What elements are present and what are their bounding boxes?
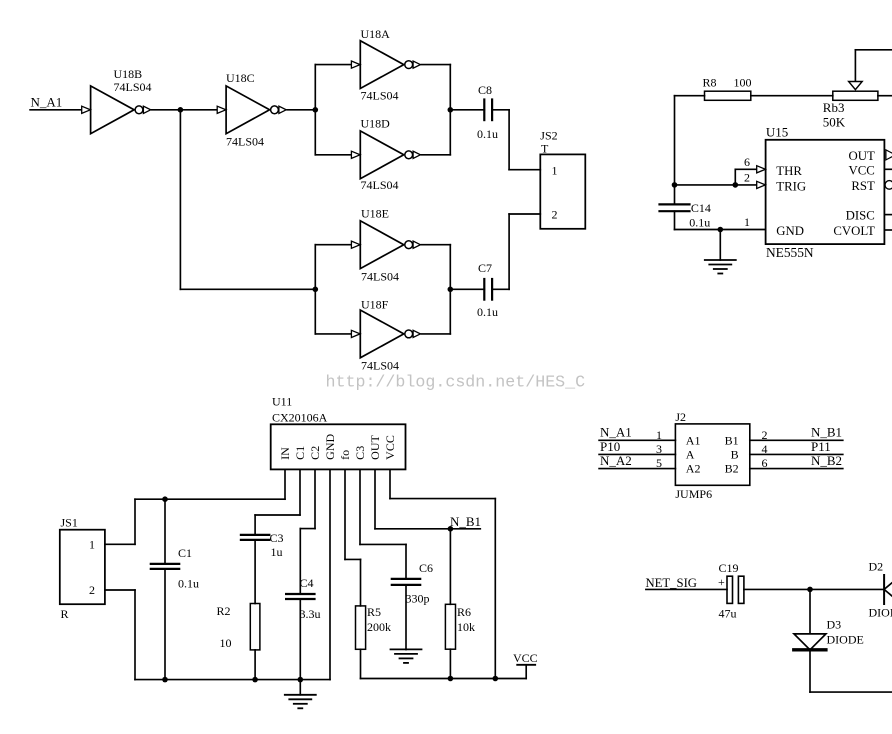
svg-text:D3: D3 [827,618,842,632]
capacitor C3 [241,535,269,540]
svg-text:74LS04: 74LS04 [361,270,399,284]
pin stub VCC route [390,469,495,678]
wire J2 pin3 [599,453,675,455]
pin label A [686,448,695,462]
svg-text:NE555N: NE555N [766,245,814,260]
svg-text:74LS04: 74LS04 [361,178,399,192]
svg-text:RST: RST [851,179,875,193]
pin arrow TRIG [757,181,766,188]
pin number 6 [744,155,750,169]
pin stub OUT route [375,469,480,528]
node C8 junction [448,107,454,113]
pin stub GND [329,469,331,679]
svg-text:10: 10 [220,636,232,650]
svg-text:http://blog.csdn.net/HES_C: http://blog.csdn.net/HES_C [326,373,586,392]
pin label VCC [848,163,874,177]
svg-text:10k: 10k [457,620,475,634]
pin label THR [776,164,802,178]
diode D3 [794,634,826,650]
pin number 1 J2 [656,428,662,442]
label JS1 [61,516,78,530]
net label N_A1 J2 [600,425,632,440]
capacitor C4 [286,594,314,599]
capacitor C7 [484,279,492,300]
node GND rail junction [718,227,724,233]
net label N_A2 [600,453,632,468]
wire bottom rail right [361,678,527,680]
svg-text:B2: B2 [725,462,739,476]
resistor R8 [675,91,833,100]
label C19 [719,561,739,621]
svg-text:Rb3: Rb3 [823,100,845,115]
label JS2 [540,129,557,156]
svg-text:74LS04: 74LS04 [114,80,152,94]
svg-text:GND: GND [323,433,337,459]
wire C6 bottom + ground [405,585,407,650]
pin bubble RST [885,181,892,190]
svg-text:A1: A1 [686,433,701,447]
label R8 [703,76,752,90]
svg-text:0.1u: 0.1u [178,577,199,591]
wire J2 pin4 [750,453,843,455]
node A/D branch junction [313,107,319,113]
wire NET_SIG [646,588,727,590]
svg-text:DISC: DISC [846,208,875,222]
capacitor C6 [392,579,420,585]
pin stub C2 route [300,469,315,594]
svg-text:N_B2: N_B2 [811,453,842,468]
wire TRIG [675,184,757,186]
connector J2 box [675,424,749,485]
node TRIG junction [672,182,678,188]
svg-text:C6: C6 [419,561,433,575]
wiper Rb3 [849,50,892,90]
pin label A2 [686,462,701,476]
wire JS1 pin2 [105,590,135,680]
ground NE555 [705,230,736,274]
wire U18A output [421,64,450,66]
wire C4 bottom [299,600,301,680]
svg-text:N_A1: N_A1 [31,94,63,109]
svg-text:IN: IN [278,447,292,460]
pin stub C1 route [255,469,300,535]
svg-text:THR: THR [776,164,802,178]
wire branch vertical A-D [314,65,316,155]
svg-text:JS1: JS1 [61,516,78,530]
svg-text:CX20106A: CX20106A [272,410,328,424]
svg-text:5: 5 [656,456,662,470]
label C19 plus [718,575,725,589]
svg-text:DIODE: DIODE [869,606,892,620]
label C7 [477,261,498,319]
label J2 [675,410,686,424]
pin CVOLT right [884,229,892,231]
svg-text:6: 6 [762,456,768,470]
label U18D [361,117,399,193]
node C4 bottom [298,677,304,683]
pin 2 JS1 [89,583,95,597]
pin 2 JS2 [552,208,558,222]
wire C8 to JS2 pin1 [492,110,540,170]
label U18F [361,298,399,373]
pin label B [731,448,739,462]
label JUMP6 [675,487,712,501]
diode D2 [884,575,892,604]
capacitor C1 [151,499,179,679]
wire D3 stem bottom [810,650,892,692]
pin arrow OUT [886,150,892,160]
svg-text:N_B1: N_B1 [450,514,481,529]
wire C14 to GND rail [675,211,766,229]
node D3 junction [807,587,813,593]
svg-text:C14: C14 [691,201,711,215]
label U18E [361,207,399,284]
net label N_A1 [31,94,63,109]
pin number 2 [744,171,750,185]
svg-text:R: R [61,607,69,621]
capacitor C19 [727,576,744,603]
svg-text:N_A1: N_A1 [600,425,632,440]
op-amp U15 box [766,140,885,244]
inverter U18D [351,131,420,179]
IC U11 box [271,424,406,469]
wire JS1 pin1 [105,499,135,544]
svg-text:U15: U15 [766,124,788,139]
svg-text:C8: C8 [478,83,492,97]
net label N_B1 [450,514,481,529]
wire THR stub [735,169,756,185]
label U11 [272,395,328,425]
wire to C8 [450,109,484,111]
wire U18B branch vertical [179,110,181,289]
wire IN rail [135,498,285,500]
svg-text:VCC: VCC [383,435,397,460]
svg-text:1: 1 [656,428,662,442]
node C1 top junction [162,496,168,502]
label NE555N [766,245,814,260]
wire U18F output [421,333,450,335]
wire U18B output [152,109,217,111]
svg-text:1: 1 [89,538,95,552]
wire J2 pin1 [599,439,675,441]
svg-text:A: A [686,448,695,462]
svg-text:N_A2: N_A2 [600,453,632,468]
label R6 [457,605,475,634]
svg-text:R2: R2 [217,604,231,618]
svg-text:C1: C1 [178,546,192,560]
wire R8 left vertical [674,96,676,205]
svg-text:VCC: VCC [848,163,874,177]
pin number 4 J2 [762,442,768,456]
connector JS1 [60,530,105,605]
svg-text:C1: C1 [293,446,307,460]
svg-text:2: 2 [762,428,768,442]
svg-text:U18A: U18A [361,27,391,41]
label C3 [270,531,284,559]
svg-text:1u: 1u [271,545,283,559]
pin 1 JS2 [552,163,558,177]
pin number 3 J2 [656,442,662,456]
svg-text:2: 2 [552,208,558,222]
wire branch vertical E-F [314,245,316,334]
svg-text:OUT: OUT [848,149,874,163]
wire U18C output [287,109,315,111]
node THR stub junction [733,182,739,188]
svg-text:T: T [541,141,549,155]
svg-text:0.1u: 0.1u [477,127,498,141]
wire to U18F input [315,333,350,335]
node R2 bottom [252,677,258,683]
pin number 1 [744,215,750,229]
svg-text:U18F: U18F [361,298,389,312]
svg-text:47u: 47u [719,607,737,621]
node C1 bottom [162,677,168,683]
label R2 [217,604,232,650]
svg-text:3.3u: 3.3u [300,607,321,621]
label U18A [361,27,399,103]
pin labels U11 [278,433,397,459]
pin stub C3 route [360,469,406,579]
svg-text:A2: A2 [686,462,701,476]
pin stub fo route [345,469,361,606]
svg-text:200k: 200k [367,620,391,634]
svg-text:74LS04: 74LS04 [226,135,264,149]
label U15 [766,124,788,139]
svg-text:1: 1 [552,163,558,177]
svg-text:2: 2 [744,171,750,185]
svg-text:NET_SIG: NET_SIG [646,576,697,590]
svg-text:TRIG: TRIG [776,179,806,193]
wire N_B1 to R6 [449,529,451,605]
label C1 [178,546,199,591]
resistor R6 [445,604,455,678]
svg-text:C2: C2 [308,446,322,460]
label C8 [477,83,498,141]
svg-text:J2: J2 [675,410,686,424]
pin number 2 J2 [762,428,768,442]
wire C19 to D2 [744,588,884,590]
pin label GND [776,224,804,238]
net label P10 [600,439,620,454]
svg-text:50K: 50K [823,115,846,130]
pin 1 JS1 [89,538,95,552]
wire A/D output vertical [449,65,451,155]
pin label A1 [686,433,701,447]
inverter U18B [82,86,151,134]
svg-text:B: B [731,448,739,462]
label C4 [300,576,321,621]
svg-text:R5: R5 [367,605,381,619]
svg-text:P10: P10 [600,439,620,454]
wire J2 pin6 [750,468,843,470]
svg-text:4: 4 [762,442,768,456]
pin label OUT [848,149,874,163]
net label P11 [811,439,831,454]
svg-text:R6: R6 [457,605,471,619]
label D2 [869,560,892,620]
svg-text:6: 6 [744,155,750,169]
label Rb3 [823,100,846,129]
svg-text:74LS04: 74LS04 [361,89,399,103]
power VCC [517,665,535,679]
wire branch horizontal EF [180,288,315,290]
label VCC [513,651,538,665]
node U18B out junction [178,107,184,113]
svg-text:U11: U11 [272,395,292,409]
svg-text:U18C: U18C [226,71,255,85]
inverter U18F [351,310,420,358]
wire bottom rail left [135,679,330,681]
svg-text:U18E: U18E [361,207,389,221]
wire U18E output [421,244,450,246]
svg-text:330p: 330p [406,592,430,606]
inverter U18A [351,41,420,89]
svg-text:+: + [718,575,725,589]
svg-text:D2: D2 [869,560,884,574]
net label N_B2 [811,453,842,468]
svg-text:74LS04: 74LS04 [361,359,399,373]
wire to C7 [450,288,484,290]
svg-text:C3: C3 [270,531,284,545]
label D3 [827,618,864,647]
net label N_B1 J2 [811,425,842,440]
svg-text:2: 2 [89,583,95,597]
pin label DISC [846,208,875,222]
pin stub IN [284,469,286,499]
svg-text:OUT: OUT [368,434,382,459]
svg-text:0.1u: 0.1u [477,305,498,319]
svg-text:C3: C3 [353,446,367,460]
svg-text:0.1u: 0.1u [689,216,710,230]
label U18C [226,71,264,149]
svg-text:N_B1: N_B1 [811,425,842,440]
pin arrow THR [757,166,766,173]
svg-text:VCC: VCC [513,651,538,665]
pin number 5 J2 [656,456,662,470]
ground C6 [391,649,422,663]
node N_B1 junction [448,526,454,532]
label R JS1 [61,607,69,621]
capacitor C14 [660,204,690,211]
svg-text:U18D: U18D [361,117,391,131]
resistor R2 [250,540,260,679]
svg-text:JUMP6: JUMP6 [675,487,712,501]
net label NET_SIG [646,576,697,590]
svg-text:C7: C7 [478,261,492,275]
label C6 [406,561,434,606]
node E/F branch junction [313,287,319,293]
wire J2 pin2 [750,439,843,441]
wire C7 to JS2 pin2 [492,214,540,289]
wire J2 pin5 [599,468,675,470]
pin label B2 [725,462,739,476]
pin label RST [851,179,875,193]
capacitor C8 [484,100,492,121]
wire to U18E input [315,244,350,246]
wire to U18D input [315,154,350,156]
wire U18D output [421,154,450,156]
node C7 junction [448,287,454,293]
pin label TRIG [776,179,806,193]
potentiometer Rb3 [833,91,892,100]
svg-text:100: 100 [734,76,752,90]
pin VCC right [884,168,892,170]
pin label B1 [725,433,739,447]
svg-text:B1: B1 [725,433,739,447]
svg-text:1: 1 [744,215,750,229]
node R6 bottom [448,676,454,682]
label U18B [114,67,152,94]
svg-text:3: 3 [656,442,662,456]
svg-text:P11: P11 [811,439,831,454]
watermark [326,373,586,392]
wire E/F output vertical [449,245,451,334]
wire N_A1 to U18B input [30,109,81,111]
wire D3 stem top [809,589,811,634]
svg-text:R8: R8 [703,76,717,90]
wire to U18A input [315,64,350,66]
svg-text:C19: C19 [719,561,739,575]
ground U11 [285,680,316,709]
svg-text:fo: fo [338,450,352,460]
pin label CVOLT [833,224,875,238]
svg-text:C4: C4 [300,576,314,590]
inverter U18C [217,86,286,134]
pin DISC right [884,214,892,216]
label C14 [689,201,711,230]
node VCC route bottom [493,676,499,682]
svg-text:GND: GND [776,224,804,238]
svg-text:DIODE: DIODE [827,633,864,647]
pin number 6 J2 [762,456,768,470]
label R5 [367,605,391,634]
svg-text:CVOLT: CVOLT [833,224,875,238]
inverter U18E [351,221,420,269]
svg-text:U18B: U18B [114,67,143,81]
resistor R5 [356,606,366,679]
connector JS2 [540,154,585,228]
